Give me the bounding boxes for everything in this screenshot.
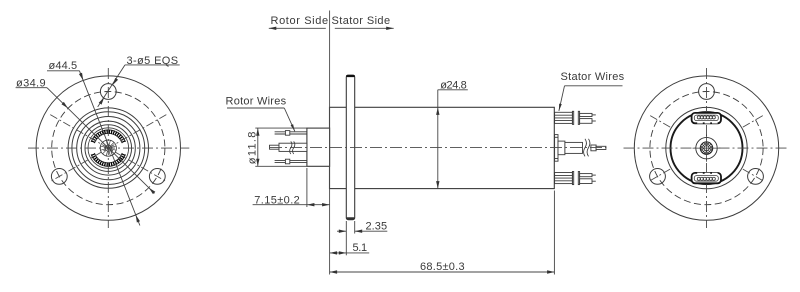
leader 3-ø5 [98,65,125,107]
hub center dot [107,146,110,149]
bolt hole top ø5 [100,84,116,100]
flange dark top cap [346,75,355,77]
rotor wire bottom terminal [285,159,289,164]
inner body circle thin [666,107,747,188]
connector bottom (right view) [692,173,721,184]
stator shaft break symbol [584,139,587,157]
stator wires bottom group [555,172,596,185]
stator shaft step block [558,141,565,155]
rotor wire top terminal [285,131,289,136]
ext line x=554.6 [553,191,555,275]
bolt hole lower-left ø5 [51,169,67,185]
svg-text:Stator Side: Stator Side [332,15,391,27]
bolt circle dashed (right view) [650,92,763,205]
main centerline (middle view) [270,147,607,149]
connector top (right view) [692,113,721,124]
spoked hub circle [100,140,116,156]
ring r36.4 [72,112,145,185]
inner body circle bold [671,112,743,184]
rotor shaft body [279,143,307,151]
stator body cylinder ø24.8 [330,107,555,188]
stator side arrow line [335,27,394,29]
rotor wire bottom [275,160,307,162]
radial centerline 30deg (left view) [50,115,166,182]
hub spokes [101,140,116,155]
ring r27 [81,121,135,175]
centerline vertical (left view) [107,68,109,228]
radial centerline 150deg (left view) [50,115,166,182]
screw crosshair overlay [693,147,721,149]
stator shaft flange plate [555,135,558,162]
bolt circle ø34.9 (dashed) [52,92,165,205]
ext lines for 2.35 [345,221,347,255]
bolt hole lower-right (right view) [748,169,764,185]
flange dark bottom cap [346,217,355,219]
svg-text:5.1: 5.1 [353,242,368,254]
svg-text:68.5±0.3: 68.5±0.3 [420,261,465,273]
stator wires top group [555,111,596,124]
stator shaft end block [591,145,596,151]
ø34.9 diameter dimension line [47,88,155,194]
knurled arc band bottom [91,153,125,166]
ring r31.6 [77,117,140,180]
knurled arc band top [91,130,125,143]
bolt hole lower-right ø5 [149,169,165,185]
radial centerlines (right view) [743,169,765,182]
rotor side arrow line [269,27,326,29]
ext line x=306.9 [306,168,308,207]
rotor housing ø11.8 [307,128,330,166]
svg-text:Rotor Side: Rotor Side [271,15,329,27]
flange outer circle ø44.5 [36,76,180,220]
ring r40.2 [68,108,148,188]
bolt hole lower-left (right view) [650,169,666,185]
rotor wire top [275,132,307,134]
rotor shaft break symbol [290,141,292,154]
centerline vertical (right view) [706,68,708,228]
mounting flange edge-on [346,75,354,220]
svg-text:Rotor Wires: Rotor Wires [226,96,287,108]
stator shaft [565,142,583,153]
svg-text:ø44.5: ø44.5 [49,60,78,72]
ext lines for ø11.8 [255,127,306,129]
center screw outer circle (right view) [696,137,717,158]
stator shaft notch lines [555,136,558,138]
ø44.5 diameter dimension line [79,71,139,226]
center screw knurled circle (right view) [693,135,721,162]
ring r23.3 [85,125,132,172]
svg-text:2.35: 2.35 [366,221,388,233]
svg-text:Stator Wires: Stator Wires [561,71,625,83]
centerline horizontal (right view) [624,147,788,149]
flange outer circle (right view) [634,76,778,220]
rotor shaft tip [270,145,280,149]
centerline horizontal (left view) [28,147,189,149]
header divider / extension line x=329.6 [329,11,331,275]
stator shaft thin rod [596,146,606,149]
bolt hole top (right view) [699,84,715,100]
retaining ring r20.3 [88,128,129,169]
